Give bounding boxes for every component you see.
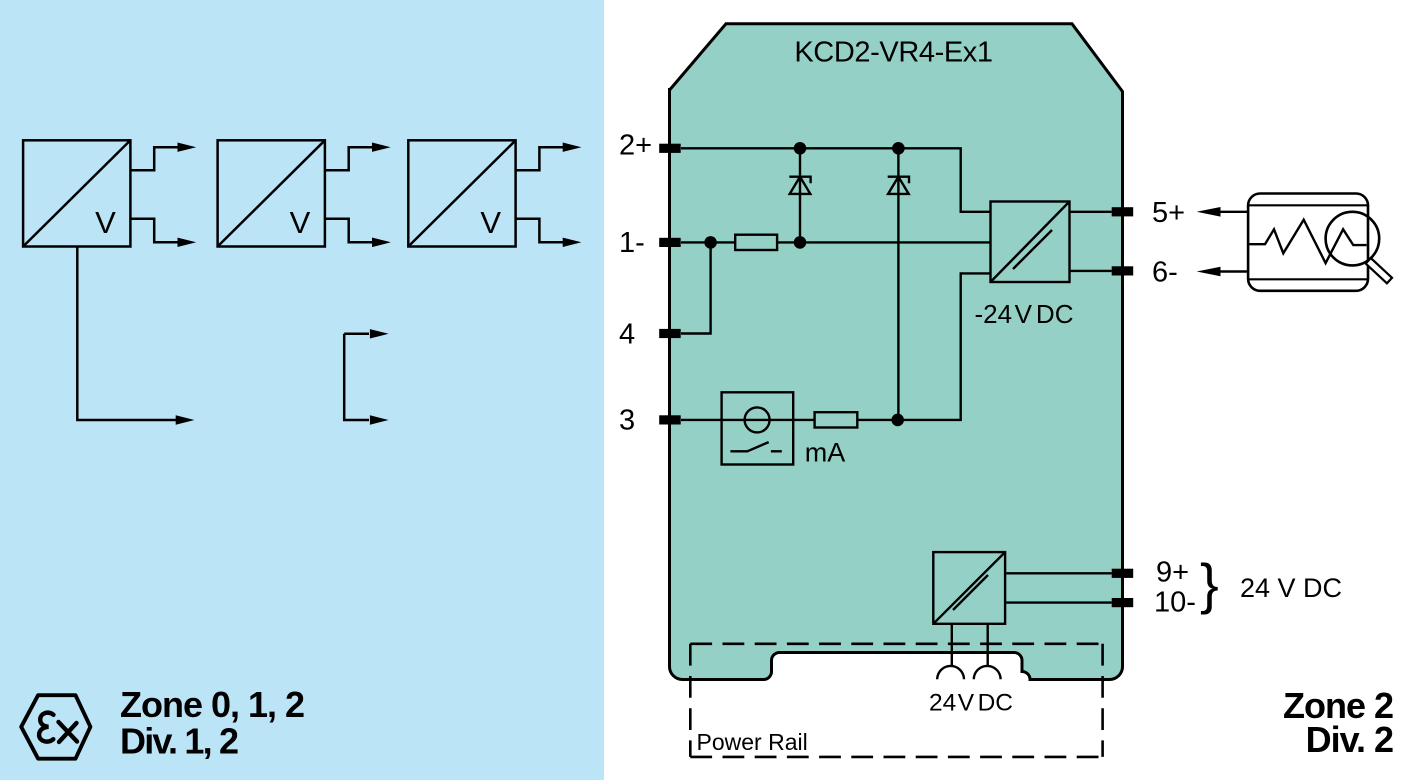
svg-text:-24VDC: -24VDC	[975, 299, 1074, 329]
terminal 9+	[1112, 569, 1134, 578]
Ex hexagon logo	[21, 695, 90, 759]
terminal 6-	[1112, 266, 1134, 275]
resistor R2	[815, 412, 858, 427]
junction node 3/D2	[891, 414, 904, 427]
svg-text:9+: 9+	[1156, 556, 1189, 588]
svg-text:5+: 5+	[1152, 197, 1185, 229]
wire 2+ to converter	[681, 148, 992, 212]
terminal 1-	[659, 238, 681, 247]
terminal 10-	[1112, 598, 1134, 607]
wire terminal 4 up to node	[681, 242, 711, 333]
terminal 3	[659, 415, 681, 424]
svg-text:24 V DC: 24 V DC	[1240, 573, 1342, 603]
terminal 5+	[1112, 207, 1134, 216]
junction node 1-/4	[704, 236, 717, 249]
svg-text:2+: 2+	[619, 129, 652, 161]
svg-text:1-: 1-	[619, 227, 645, 259]
svg-text:Power Rail: Power Rail	[697, 729, 808, 755]
block 2 upper output arrow	[325, 147, 373, 170]
left hazardous-area background	[0, 0, 604, 780]
wire U2 to 10-	[1005, 601, 1112, 603]
sensor icon	[1248, 194, 1392, 291]
block 2 lower output arrow	[325, 219, 373, 243]
block 1 bottom wire arrow	[77, 247, 176, 421]
svg-text:Div. 1, 2: Div. 1, 2	[120, 720, 238, 761]
svg-text:}: }	[1200, 552, 1219, 615]
junction node 2+/D1	[794, 142, 807, 155]
test-socket box with switch	[722, 392, 794, 464]
wire 1- line	[681, 241, 992, 243]
svg-text:Zone 0, 1, 2: Zone 0, 1, 2	[120, 684, 304, 725]
block 1 upper output arrow	[130, 147, 178, 170]
svg-text:KCD2-VR4-Ex1: KCD2-VR4-Ex1	[794, 37, 992, 69]
power rail pin right	[987, 624, 989, 666]
voltage source block 1	[23, 140, 130, 246]
wire U2 to 9+	[1005, 572, 1112, 574]
svg-text:Div. 2: Div. 2	[1306, 719, 1393, 760]
svg-text:3: 3	[619, 405, 635, 437]
svg-text:V: V	[95, 205, 116, 240]
junction node 2+/D2	[892, 142, 905, 155]
block 3 lower output arrow	[516, 219, 564, 243]
bracket arrows pair	[344, 334, 369, 420]
svg-text:mA: mA	[805, 438, 846, 468]
terminal 4	[659, 329, 681, 338]
terminal 2+	[659, 144, 681, 153]
block 1 lower output arrow	[130, 219, 178, 243]
block 3 upper output arrow	[516, 147, 564, 170]
svg-text:4: 4	[619, 318, 635, 350]
arrow to 5+	[1219, 211, 1249, 213]
power rail pin left	[951, 624, 953, 666]
arrow to 6-	[1219, 270, 1249, 272]
wire U1 to 6-	[1070, 270, 1112, 272]
voltage source block 2	[218, 140, 325, 246]
wire U1 to 5+	[1070, 211, 1112, 213]
zener diode D1	[789, 148, 810, 242]
svg-text:6-: 6-	[1152, 256, 1178, 288]
svg-text:10-: 10-	[1154, 586, 1196, 618]
power rail dashed boundary	[690, 644, 1102, 757]
voltage source block 3	[408, 140, 515, 246]
svg-text:V: V	[480, 205, 501, 240]
zener diode D2	[888, 148, 909, 420]
power supply U2	[933, 552, 1005, 624]
wire 3 line	[681, 273, 992, 420]
resistor R1	[735, 235, 777, 250]
svg-text:24VDC: 24VDC	[929, 690, 1013, 717]
junction node 1-/D1	[794, 236, 807, 249]
svg-text:V: V	[290, 205, 311, 240]
device body KCD2-VR4-Ex1	[670, 24, 1123, 680]
dc-dc converter U1	[991, 202, 1070, 283]
